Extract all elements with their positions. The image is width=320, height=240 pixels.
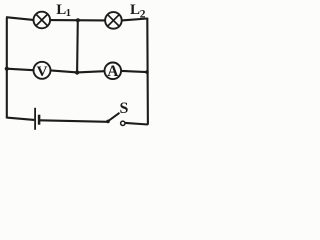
node junction left of middle rail — [5, 67, 9, 71]
ammeter A — [105, 63, 122, 81]
wire top rail right segment — [122, 19, 147, 21]
svg-text:1: 1 — [66, 8, 71, 19]
wire bottom rail left segment — [7, 118, 35, 120]
svg-text:V: V — [37, 64, 48, 80]
node junction right of middle rail — [145, 70, 149, 74]
wire middle rail right segment — [121, 71, 147, 72]
lamp L1 — [34, 12, 51, 29]
svg-text:L: L — [130, 2, 140, 18]
svg-text:A: A — [107, 63, 119, 80]
svg-text:L: L — [56, 2, 66, 18]
switch open contact circle — [121, 121, 125, 125]
wire left vertical + top-left corner segment — [7, 17, 34, 118]
svg-text:S: S — [120, 100, 129, 117]
wire middle rail left segment — [7, 69, 34, 71]
wire middle vertical between lamps and meters — [76, 20, 79, 73]
wire top rail between L1 and L2 — [50, 19, 105, 21]
wire bottom rail battery-to-switch segment — [40, 120, 108, 122]
battery cell long plate — [34, 108, 36, 130]
wire middle rail V-to-junction segment — [51, 70, 78, 72]
node junction bottom of middle vertical — [75, 70, 79, 74]
switch S pivot dot — [106, 120, 110, 124]
battery cell short plate — [38, 115, 41, 125]
svg-text:2: 2 — [140, 9, 146, 21]
wire middle rail junction-to-A segment — [77, 71, 104, 72]
wire right vertical — [146, 18, 149, 125]
switch lever — [108, 113, 120, 121]
wire bottom rail switch-to-corner segment — [125, 123, 147, 125]
node junction top of middle vertical — [76, 18, 80, 22]
lamp L2 — [105, 12, 122, 29]
voltmeter V — [34, 62, 51, 80]
